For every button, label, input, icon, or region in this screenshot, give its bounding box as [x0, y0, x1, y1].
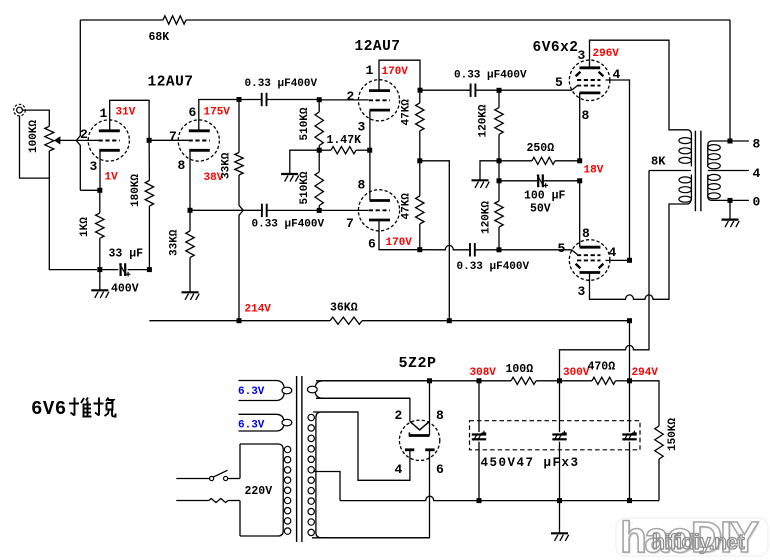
wire pin2 filament: [316, 398, 410, 421]
dashed box caps: [470, 421, 641, 450]
svg-text:250Ω: 250Ω: [527, 142, 555, 155]
svg-text:6.3V: 6.3V: [238, 386, 265, 398]
wire cathode upper to node: [369, 111, 371, 150]
mains fuse: [176, 500, 209, 502]
svg-text:6: 6: [368, 237, 376, 252]
wire screen lower 6V6: [606, 259, 630, 261]
svg-text:33 μF: 33 μF: [109, 248, 144, 261]
svg-text:6: 6: [189, 105, 197, 120]
svg-text:300V: 300V: [563, 367, 590, 379]
svg-text:1: 1: [366, 63, 374, 78]
wire plate lower splitter down-over: [379, 221, 420, 250]
svg-text:8: 8: [358, 178, 366, 193]
svg-text:220V: 220V: [245, 485, 273, 498]
OPT core: [694, 131, 696, 212]
svg-text:3: 3: [578, 284, 586, 299]
svg-text:8: 8: [582, 226, 590, 241]
node rail cap3: [627, 498, 632, 503]
node ground bus left: [97, 267, 102, 272]
svg-text:0.33 μF400V: 0.33 μF400V: [454, 70, 527, 82]
svg-text:6V6x2: 6V6x2: [533, 40, 579, 56]
bypass cap 100uF 50V: [499, 180, 538, 182]
svg-text:120KΩ: 120KΩ: [478, 104, 490, 137]
svg-text:4: 4: [753, 166, 761, 181]
node screen rail join: [627, 318, 632, 323]
svg-text:294V: 294V: [632, 367, 659, 379]
svg-text:4: 4: [609, 245, 617, 260]
node rectifier output: [427, 378, 432, 383]
coupling cap C2 0.33uF400V lower: [190, 209, 262, 211]
plate load 180KΩ: [148, 140, 150, 180]
node tap 8 feedback: [728, 139, 733, 144]
triode U1a 12AU7: [88, 120, 129, 161]
node plate V1b: [237, 97, 242, 102]
plate resistor 47KΩ upper: [419, 90, 421, 103]
svg-text:400V: 400V: [111, 283, 139, 296]
svg-text:12AU7: 12AU7: [355, 39, 401, 55]
rectifier filament winding 5V: [315, 381, 430, 399]
mains switch: [176, 478, 209, 480]
HV winding: [316, 412, 430, 538]
node plate lower splitter: [417, 247, 422, 252]
node cathode V1b coupling: [188, 208, 193, 213]
svg-text:180KΩ: 180KΩ: [130, 174, 142, 207]
cathode resistor 33KΩ second: [189, 210, 191, 231]
wire pin8 filament to B+: [429, 381, 431, 436]
svg-text:8: 8: [436, 408, 444, 423]
node 214V rail top: [147, 267, 152, 272]
node grid lower 6V6: [497, 247, 502, 252]
beam tetrode V3 6V6 upper: [569, 60, 610, 101]
svg-text:2: 2: [347, 89, 355, 104]
node tap 0: [728, 198, 733, 203]
svg-text:0: 0: [753, 195, 761, 210]
plate resistor 47KΩ lower: [419, 161, 421, 196]
tail resistor 1.47K: [319, 149, 331, 151]
svg-text:170V: 170V: [386, 237, 413, 249]
node bias upper: [497, 158, 502, 163]
filter cap 47uF #2: [559, 381, 561, 432]
NFB vertical with hop over wiper wire: [76, 20, 80, 190]
hanzi 挽: [94, 398, 116, 417]
cathode resistor 250Ω: [499, 160, 532, 162]
dropper resistor 36KΩ: [330, 317, 362, 324]
svg-text:8: 8: [582, 108, 590, 123]
wire screen upper 6V6: [606, 80, 630, 260]
wire grid lower 6V6: [499, 249, 572, 251]
input jack J1: [14, 104, 26, 116]
node 47K mid feed: [417, 158, 422, 163]
filter resistor 470Ω: [560, 380, 593, 382]
svg-text:214V: 214V: [245, 304, 272, 316]
svg-text:510KΩ: 510KΩ: [299, 171, 311, 204]
wire grid lower splitter: [319, 209, 368, 211]
svg-text:47KΩ: 47KΩ: [401, 193, 413, 220]
svg-text:31V: 31V: [116, 107, 136, 119]
potentiometer 100KΩ: [45, 126, 54, 151]
beam tetrode V4 6V6 lower: [569, 240, 610, 281]
svg-text:3: 3: [578, 48, 586, 63]
node cathodes splitter: [367, 148, 372, 153]
grid resistor 120KΩ upper: [498, 90, 500, 107]
svg-text:0.33 μF400V: 0.33 μF400V: [252, 219, 325, 231]
ground bias network: [480, 161, 499, 180]
wire wiper to grid pin2: [60, 139, 98, 141]
wire grid V1b: [149, 139, 188, 141]
OPT secondary: [708, 141, 749, 167]
svg-text:100KΩ: 100KΩ: [28, 120, 40, 153]
wire jack shield to ground bus: [20, 116, 50, 178]
ground PSU main: [559, 501, 561, 533]
ground input stage: [99, 270, 101, 291]
ground stub splitter divider: [290, 150, 319, 173]
svg-text:4: 4: [395, 462, 403, 477]
node grid lower splitter: [317, 208, 322, 213]
svg-text:hifidiy.net: hifidiy.net: [652, 531, 745, 554]
plate resistor 33KΩ: [238, 100, 240, 153]
node B+ riser to rail: [447, 318, 452, 323]
bleeder 150KΩ: [630, 381, 660, 426]
wire ground rail with hop: [340, 496, 659, 500]
wire cathode lower from node: [369, 150, 371, 200]
wire B+ rail 308V: [316, 380, 479, 382]
svg-text:1KΩ: 1KΩ: [79, 217, 91, 237]
grid leak 510KΩ upper: [318, 100, 320, 112]
wire top rail down to output tap 8: [729, 20, 731, 141]
node plate V1a / grid V1b: [147, 138, 152, 143]
wire grid upper 6V6: [499, 89, 572, 91]
wire grid upper splitter: [319, 99, 368, 101]
wire screens down to 294V: [629, 321, 631, 381]
wire cathode V1a down: [99, 151, 101, 190]
feedback resistor 68K: [80, 19, 163, 21]
node rail cap1: [477, 498, 482, 503]
power transformer T2 core: [296, 376, 298, 542]
svg-text:1V: 1V: [105, 172, 119, 184]
svg-text:150KΩ: 150KΩ: [667, 418, 679, 451]
node plate upper splitter: [418, 88, 423, 93]
svg-text:3: 3: [358, 120, 366, 135]
triode U1b 12AU7: [178, 120, 219, 161]
ground V1b cathode: [182, 291, 199, 293]
node 294V: [627, 378, 632, 383]
rectifier V5 5Z2P: [399, 420, 439, 460]
svg-text:2: 2: [395, 408, 403, 423]
wire NFB to cathode: [80, 189, 100, 191]
heater winding 6.3V #2: [239, 414, 285, 431]
svg-text:5: 5: [558, 241, 566, 256]
svg-text:1.47K: 1.47K: [327, 134, 362, 147]
svg-text:470Ω: 470Ω: [588, 361, 616, 374]
svg-text:6: 6: [436, 462, 444, 477]
svg-text:12AU7: 12AU7: [148, 75, 194, 91]
svg-text:18V: 18V: [584, 165, 604, 177]
svg-text:100Ω: 100Ω: [506, 363, 534, 376]
filter cap 47uF #3: [629, 381, 631, 432]
wire CT down to 300V with hop: [560, 171, 650, 381]
watermark haoDIY: [616, 513, 768, 560]
triode U2a 12AU7 splitter upper: [358, 80, 399, 121]
wire jack to volume pot: [22, 110, 49, 126]
node grid upper splitter: [317, 97, 322, 102]
wire tap 4: [708, 170, 749, 172]
node 308V: [477, 378, 482, 383]
svg-text:120KΩ: 120KΩ: [481, 201, 493, 234]
node cathode bus upper: [577, 158, 582, 163]
svg-text:7: 7: [346, 216, 354, 231]
svg-text:1: 1: [100, 106, 108, 121]
wire 47K mid to B+ riser: [420, 161, 450, 321]
svg-text:47KΩ: 47KΩ: [401, 99, 413, 126]
node bias lower: [497, 178, 502, 183]
svg-text:8: 8: [753, 137, 761, 152]
wire plate V1b up: [199, 100, 239, 131]
svg-text:175V: 175V: [204, 107, 231, 119]
wire plate V1a up-over: [110, 100, 149, 140]
svg-text:450V47 μFx3: 450V47 μFx3: [481, 456, 580, 470]
wire 214V rail: [149, 320, 330, 322]
svg-text:2: 2: [80, 127, 88, 142]
svg-text:8K: 8K: [651, 155, 666, 169]
svg-text:68K: 68K: [149, 31, 170, 44]
grid resistor 120KΩ lower: [498, 181, 500, 201]
hanzi 推: [69, 398, 92, 417]
filter cap 47uF #1: [478, 381, 480, 432]
node bias divider mid: [317, 148, 322, 153]
filter resistor 100Ω: [479, 380, 511, 382]
decoupling cap 33uF 400V: [100, 269, 118, 271]
svg-text:5: 5: [555, 75, 563, 90]
svg-text:5Z2P: 5Z2P: [399, 355, 437, 372]
svg-text:33KΩ: 33KΩ: [221, 152, 233, 179]
svg-text:36KΩ: 36KΩ: [330, 301, 358, 314]
wire pin4 plate to HV top: [313, 412, 410, 480]
svg-text:33KΩ: 33KΩ: [169, 229, 181, 256]
coupling cap C4 0.33uF400V to lower 6V6: [420, 245, 470, 249]
node cathode bus lower: [577, 178, 582, 183]
svg-text:50V: 50V: [530, 203, 551, 216]
node screens join: [627, 258, 632, 263]
triode U2b 12AU7 splitter lower: [358, 190, 399, 231]
svg-text:6.3V: 6.3V: [238, 420, 265, 432]
wire plate lower 6V6 to OPT with hops: [590, 204, 688, 299]
pot wiper arrow: [54, 136, 61, 144]
svg-text:3: 3: [90, 159, 98, 174]
output transformer T1 primary: [687, 130, 691, 167]
wire primary bottom to fuse: [239, 501, 241, 537]
svg-text:6V6: 6V6: [31, 398, 67, 420]
wire pin6 plate to HV bottom: [312, 450, 430, 538]
heater winding 6.3V #1: [239, 381, 285, 401]
node 33K to 214V rail: [237, 318, 242, 323]
node grid upper 6V6: [497, 88, 502, 93]
wire primary top to switch: [239, 444, 241, 479]
wire cathode bus: [579, 93, 581, 161]
coupling cap C1 0.33uF400V upper: [239, 99, 262, 101]
coupling cap C3 0.33uF400V to upper 6V6: [420, 89, 471, 91]
wire plate upper splitter up-over: [379, 60, 420, 90]
svg-text:296V: 296V: [593, 48, 620, 60]
svg-text:170V: 170V: [382, 66, 409, 78]
svg-text:0.33 μF400V: 0.33 μF400V: [457, 261, 530, 273]
ground secondary 0: [729, 200, 731, 219]
wire HV center tap: [313, 472, 340, 501]
cathode resistor 1KΩ: [99, 190, 101, 213]
svg-text:7: 7: [169, 129, 177, 144]
svg-text:0.33 μF400V: 0.33 μF400V: [245, 78, 318, 90]
svg-text:8: 8: [178, 158, 186, 173]
node rail cap2: [557, 498, 562, 503]
svg-text:510KΩ: 510KΩ: [299, 107, 311, 140]
svg-text:308V: 308V: [470, 367, 497, 379]
primary winding 220V: [240, 444, 283, 536]
node cathode V1a: [97, 188, 102, 193]
grid leak 510KΩ lower: [318, 150, 320, 172]
svg-text:100 μF: 100 μF: [524, 190, 566, 203]
wire primary CT: [649, 170, 691, 172]
node 300V: [557, 378, 562, 383]
wire cathode V1b down: [189, 151, 191, 210]
wire plate upper 6V6 to OPT: [590, 40, 688, 130]
